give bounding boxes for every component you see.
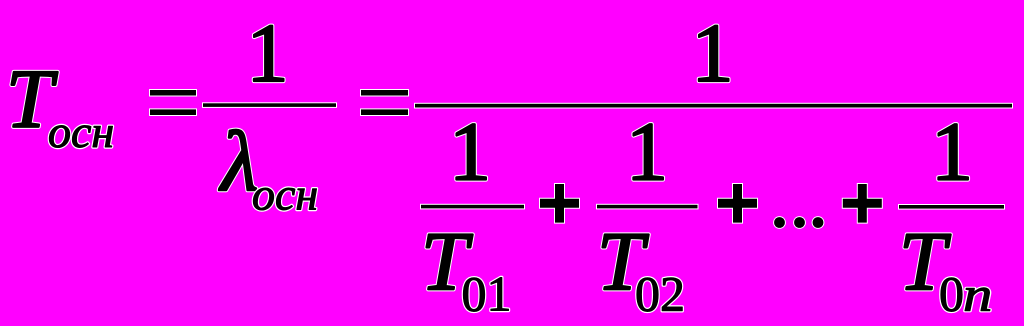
sub-fraction 3: subscript 0 [939,266,964,322]
svg-text:1: 1 [247,7,289,100]
svg-text:осн: осн [48,106,114,157]
sub-fraction 3: bar [899,205,1004,209]
equals sign 2 (two bars) [361,90,408,115]
sub-fraction 2: numerator 1 [626,106,668,199]
sub-fraction 1: T (italic) [421,216,473,309]
subscript осн (of lambda) [252,169,318,220]
svg-text:1: 1 [692,7,734,100]
plus sign 2 [718,184,757,223]
sub-fraction 3: T (italic) [899,216,951,309]
sub-fraction 1: numerator 1 [449,106,491,199]
svg-text:02: 02 [635,266,685,322]
svg-text:1: 1 [626,106,668,199]
plus sign 3 [843,184,882,223]
sub-fraction 3: numerator 1 [931,106,973,199]
svg-text:n: n [963,267,992,321]
sub-fraction 2: T (italic) [597,216,649,309]
svg-text:1: 1 [931,106,973,199]
svg-text:1: 1 [449,106,491,199]
variable T (main, italic) [6,53,58,146]
sub-fraction 1: bar [421,205,524,209]
numerator 1 (first fraction) [247,7,289,100]
svg-text:01: 01 [462,266,512,322]
equals sign 1 (two bars) [150,90,196,115]
sub-fraction 1: subscript 01 [462,266,512,322]
ellipsis dots [774,217,823,228]
lambda (italic) [218,113,258,209]
subscript осн (of T) [48,106,114,157]
svg-text:0: 0 [939,266,964,322]
main numerator 1 [692,7,734,100]
sub-fraction 2: subscript 02 [635,266,685,322]
fraction bar 1 (1 over lambda) [203,103,336,107]
plus sign 1 [540,184,579,223]
main fraction bar [415,104,1012,108]
sub-fraction 2: bar [597,205,698,209]
sub-fraction 3: subscript n (italic) [963,267,992,321]
svg-text:осн: осн [252,169,318,220]
